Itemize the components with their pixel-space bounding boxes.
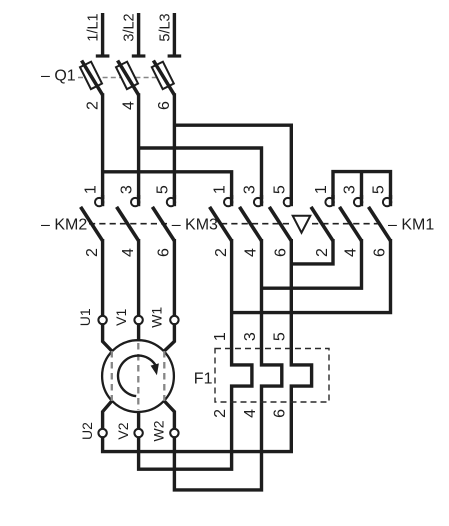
svg-text:– Q1: – Q1 <box>41 68 76 85</box>
svg-text:6: 6 <box>272 409 289 418</box>
F1 terminal 6 label <box>272 409 289 418</box>
svg-text:1: 1 <box>83 185 100 194</box>
svg-text:2: 2 <box>314 248 331 257</box>
svg-text:V1: V1 <box>113 309 129 326</box>
svg-text:4: 4 <box>343 248 360 257</box>
motor winding phase U (dashed) <box>111 351 113 401</box>
KM2 label <box>41 217 87 234</box>
svg-text:2: 2 <box>84 248 101 257</box>
svg-text:U2: U2 <box>79 422 95 440</box>
svg-text:6: 6 <box>156 248 173 257</box>
contactor linkage dashed (KM2 section) <box>89 223 167 225</box>
contactor KM3 pole 5-6 <box>269 185 292 257</box>
contactor linkage dashed (KM3 section) <box>221 223 291 225</box>
motor body circle <box>102 340 174 412</box>
svg-text:3: 3 <box>242 332 259 341</box>
wire phase L2 branch to KM3.3 <box>139 148 262 199</box>
contactor KM3 pole 3-4 <box>240 185 263 257</box>
motor rotation arrow <box>118 356 159 396</box>
supply terminal L3 (5/L3) <box>157 13 181 56</box>
contactor KM3 pole 1-2 <box>210 185 233 257</box>
wire KM1.4 to node L2 column <box>262 239 362 288</box>
breaker Q1 label <box>41 68 76 85</box>
KM3 label <box>172 217 218 234</box>
svg-text:– KM3: – KM3 <box>172 217 218 234</box>
breaker Q1 pole 3 (fuse-switch) <box>152 61 175 111</box>
contactor KM1 pole 1-2 <box>311 185 334 257</box>
wire KM3.2 via F1 element 1-2 to V2 <box>139 239 252 469</box>
svg-text:5: 5 <box>155 185 172 194</box>
motor winding phase W (dashed) <box>163 351 165 401</box>
wire phase L2: Q1.4 down to KM2.3 <box>137 93 140 199</box>
svg-text:3/L2: 3/L2 <box>122 13 138 41</box>
wire KM2.4 to V1 <box>137 239 140 317</box>
svg-text:– KM2: – KM2 <box>41 217 87 234</box>
svg-text:U1: U1 <box>77 308 93 326</box>
svg-text:V2: V2 <box>115 422 131 439</box>
svg-text:2: 2 <box>84 101 101 110</box>
svg-text:1: 1 <box>212 185 229 194</box>
motor terminal U2 <box>79 422 107 440</box>
wire KM1.2 to node L3 column <box>291 239 333 264</box>
KM1 label <box>388 217 434 234</box>
svg-text:2: 2 <box>213 248 230 257</box>
contactor KM1 pole 5-6 <box>369 185 392 257</box>
motor terminal W2 <box>151 420 179 441</box>
F1 terminal 3 label <box>242 332 259 341</box>
svg-text:6: 6 <box>156 101 173 110</box>
svg-text:4: 4 <box>120 101 137 110</box>
breaker Q1 pole 1 (fuse-switch) <box>80 61 103 111</box>
contactor linkage dashed (KM1 section) <box>312 223 383 225</box>
svg-text:4: 4 <box>120 248 137 257</box>
wire V1 into motor <box>137 323 140 341</box>
wire phase L3: Q1.6 down to KM2.5 <box>173 93 176 199</box>
wire phase L3 branch to KM3.5 <box>174 125 291 199</box>
wire KM2.2 to U1 <box>101 239 104 317</box>
svg-text:6: 6 <box>372 248 389 257</box>
supply terminal L1 (1/L1) <box>86 13 110 56</box>
svg-text:3: 3 <box>119 185 136 194</box>
svg-text:5: 5 <box>272 332 289 341</box>
wire U1 into motor <box>103 323 112 351</box>
wire KM3.4 via F1 element 3-4 to W2 <box>174 239 281 490</box>
contactor KM2 pole 1-2 <box>81 185 104 257</box>
wire KM3.6 via F1 element 5-6 to U2 <box>103 239 312 452</box>
svg-text:W2: W2 <box>151 420 167 441</box>
mechanical interlock triangle <box>293 216 311 233</box>
overload relay F1 label <box>194 370 213 387</box>
breaker Q1 linkage (dashed) <box>78 77 157 79</box>
F1 terminal 5 label <box>272 332 289 341</box>
svg-text:1: 1 <box>212 332 229 341</box>
svg-text:5: 5 <box>271 185 288 194</box>
motor terminal V1 <box>113 309 143 326</box>
contactor KM2 pole 3-4 <box>117 185 140 257</box>
breaker Q1 pole 2 (fuse-switch) <box>116 61 139 111</box>
svg-text:5: 5 <box>371 185 388 194</box>
F1 terminal 4 label <box>242 409 259 418</box>
svg-text:F1: F1 <box>194 370 213 387</box>
svg-text:3: 3 <box>342 185 359 194</box>
KM1 star-point bar (joins 1,3,5) <box>333 172 391 199</box>
wire KM2.6 to W1 <box>173 239 176 317</box>
svg-text:3: 3 <box>242 185 259 194</box>
svg-text:– KM1: – KM1 <box>388 217 434 234</box>
svg-text:6: 6 <box>273 248 290 257</box>
overload relay F1 dashed box <box>215 349 329 403</box>
motor terminal U1 <box>77 308 107 326</box>
wire KM1.6 to node L1 column <box>232 239 391 313</box>
motor winding phase V (dashed) <box>137 343 139 410</box>
svg-text:4: 4 <box>243 248 260 257</box>
wire motor to W2 <box>164 401 174 429</box>
F1 terminal 2 label <box>212 409 229 418</box>
supply terminal L2 (3/L2) <box>122 13 146 56</box>
svg-text:W1: W1 <box>149 307 165 328</box>
contactor KM1 pole 3-4 <box>340 185 363 257</box>
svg-text:5/L3: 5/L3 <box>157 13 173 41</box>
svg-text:4: 4 <box>242 409 259 418</box>
wire phase L1 branch to KM3.1 <box>103 172 232 199</box>
wire phase L1: Q1.2 down to KM2.1 <box>101 93 104 199</box>
F1 terminal 1 label <box>212 332 229 341</box>
wire motor to V2 <box>137 411 140 429</box>
svg-text:1: 1 <box>313 185 330 194</box>
svg-text:1/L1: 1/L1 <box>86 13 102 41</box>
motor terminal V2 <box>115 422 143 439</box>
wire motor to U2 <box>103 401 112 429</box>
motor terminal W1 <box>149 307 179 328</box>
wire W1 into motor <box>164 323 174 351</box>
svg-text:2: 2 <box>212 409 229 418</box>
contactor KM2 pole 5-6 <box>152 185 175 257</box>
